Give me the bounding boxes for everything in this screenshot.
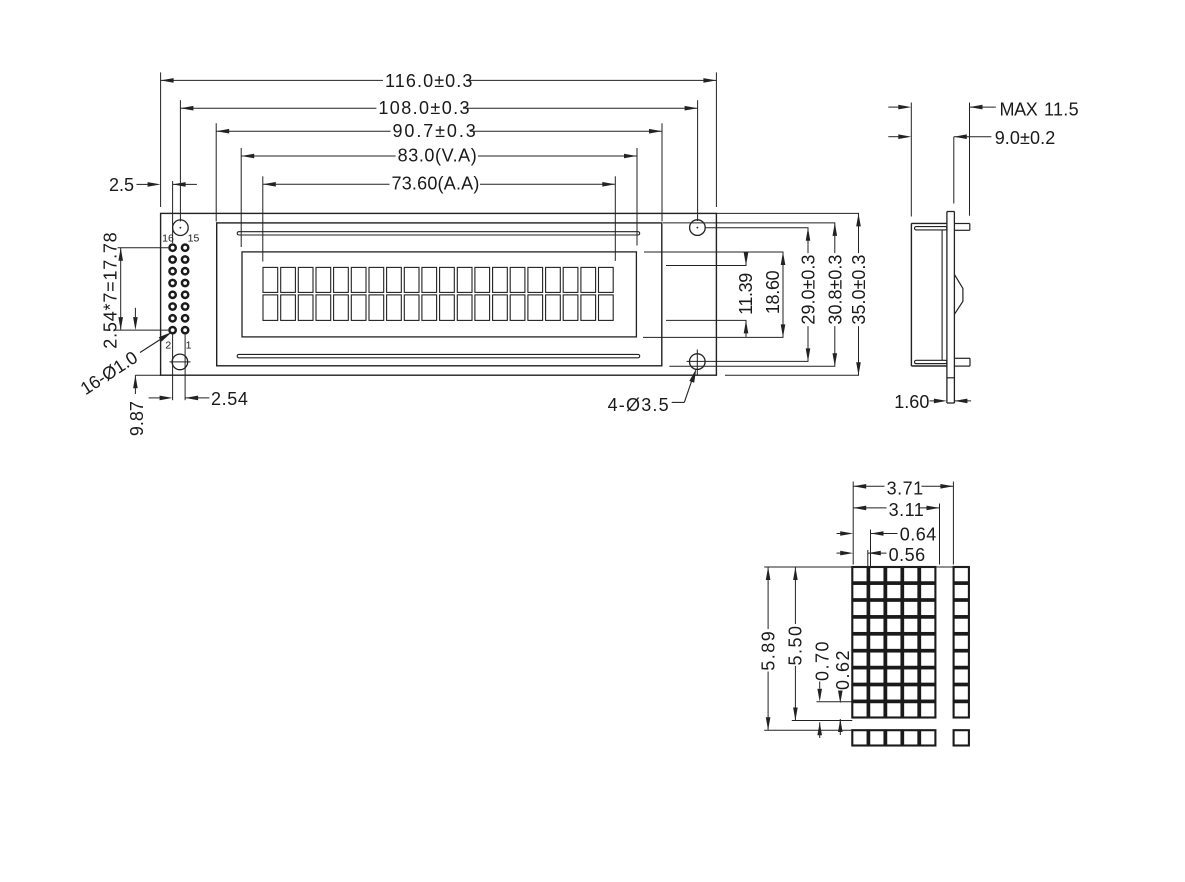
svg-text:18.60: 18.60 xyxy=(763,270,783,314)
grid 5.50 bottom extension line xyxy=(792,720,853,722)
dimension 1.60 xyxy=(929,400,934,402)
svg-text:4-Ø3.5: 4-Ø3.5 xyxy=(608,395,670,415)
side view bezel outline xyxy=(911,222,947,224)
dimension 11.39 xyxy=(666,265,747,267)
dimension 3.71 xyxy=(852,482,854,565)
dimension 35.0±0.3 xyxy=(858,213,860,253)
dimension 9.87 xyxy=(134,308,136,317)
PCB board outline (front view) xyxy=(161,213,717,375)
svg-text:11.5: 11.5 xyxy=(1044,99,1079,119)
svg-text:9.0±0.2: 9.0±0.2 xyxy=(995,128,1056,148)
mounting hole bottom-right xyxy=(690,354,706,370)
svg-text:9.87: 9.87 xyxy=(127,401,147,436)
dimension 0.62 xyxy=(839,690,841,692)
metal bezel frame outline xyxy=(217,223,662,366)
side view PCB bottom tick xyxy=(947,377,955,379)
grid 0.70 extension line xyxy=(817,701,853,703)
dot matrix main 5x9 block xyxy=(852,567,867,582)
side view bottom tab xyxy=(954,357,970,359)
dimension 116.0±0.3 xyxy=(160,72,162,207)
bezel bottom ext line xyxy=(669,365,835,367)
grid top extension line xyxy=(764,566,969,568)
svg-text:116.0±0.3: 116.0±0.3 xyxy=(385,71,474,91)
svg-text:1.60: 1.60 xyxy=(894,392,929,412)
character cell grid 20x2 (A.A) xyxy=(263,267,278,292)
dimension 2.54 pin spacing xyxy=(149,397,160,399)
svg-text:0.62: 0.62 xyxy=(833,649,853,690)
side view top tab xyxy=(954,223,969,225)
side view PCB strip xyxy=(947,211,955,213)
top bezel slot xyxy=(237,232,640,235)
svg-text:2.5: 2.5 xyxy=(109,175,134,195)
dimension 9.0±0.2 xyxy=(953,137,955,204)
svg-text:0.56: 0.56 xyxy=(889,545,926,565)
bottom-right hole crosshair vertical xyxy=(696,350,698,375)
dimension 3.11 xyxy=(939,504,941,565)
svg-text:1: 1 xyxy=(186,340,192,352)
dimension 29.0±0.3 xyxy=(807,228,809,253)
dimension 18.60 xyxy=(644,251,784,253)
svg-text:30.8±0.3: 30.8±0.3 xyxy=(825,255,845,325)
PCB top ext line xyxy=(716,212,859,214)
svg-text:90.7±0.3: 90.7±0.3 xyxy=(393,121,478,141)
svg-text:2.54*7=17.78: 2.54*7=17.78 xyxy=(101,231,121,348)
svg-text:3.71: 3.71 xyxy=(887,478,924,498)
dimension 0.56 xyxy=(867,550,869,567)
mounting hole bottom-left xyxy=(172,354,188,370)
svg-text:2: 2 xyxy=(165,340,171,352)
side view glass bottom second line xyxy=(915,363,948,365)
svg-text:3.11: 3.11 xyxy=(889,500,925,520)
dimension 90.7±0.3 xyxy=(215,123,217,221)
side view glass inner edge xyxy=(941,230,943,360)
side view glass top lip xyxy=(915,227,948,230)
dimension 2.54*7=17.78 xyxy=(118,247,169,249)
svg-text:2.54: 2.54 xyxy=(211,389,248,409)
bottom-right hole center line to 29.0 dim xyxy=(687,360,809,362)
dot matrix bottom row xyxy=(852,730,867,745)
dimension 5.89 xyxy=(767,567,769,629)
svg-text:35.0±0.3: 35.0±0.3 xyxy=(849,255,869,325)
svg-text:11.39: 11.39 xyxy=(736,273,756,315)
svg-text:29.0±0.3: 29.0±0.3 xyxy=(799,255,819,325)
dimension 0.70 xyxy=(819,682,821,689)
PCB bottom ext line xyxy=(725,374,859,376)
bottom bezel slot xyxy=(237,354,640,357)
bezel top ext line xyxy=(663,222,835,224)
dimension 83.0(V.A) xyxy=(240,148,242,247)
dot matrix right column xyxy=(954,567,969,582)
dimension 30.8±0.3 xyxy=(834,223,836,253)
pin header pads 2x8 xyxy=(168,243,177,252)
side view glass bottom lip xyxy=(915,360,948,363)
grid row10 top extension line xyxy=(764,729,852,731)
bottom-left hole crosshair xyxy=(170,361,191,363)
dimension 73.60(A.A) xyxy=(262,176,264,261)
mounting hole top-right xyxy=(690,220,706,236)
side view epoxy bump xyxy=(954,274,963,314)
dimension 108.0±0.3 xyxy=(179,100,181,221)
dimension 0.64 xyxy=(870,530,872,567)
dimension MAX 11.5 xyxy=(910,103,912,217)
mounting hole top-left xyxy=(173,220,189,236)
svg-text:MAX: MAX xyxy=(1000,99,1038,119)
svg-text:73.60(A.A): 73.60(A.A) xyxy=(392,174,480,194)
dimension 5.50 xyxy=(794,567,796,624)
svg-text:5.50: 5.50 xyxy=(785,624,805,665)
svg-text:83.0(V.A): 83.0(V.A) xyxy=(398,145,478,165)
svg-text:5.89: 5.89 xyxy=(758,630,778,671)
svg-text:15: 15 xyxy=(188,232,200,244)
svg-text:108.0±0.3: 108.0±0.3 xyxy=(378,98,471,118)
top-right hole center line to 29.0 dim xyxy=(705,227,809,229)
svg-text:0.70: 0.70 xyxy=(812,640,832,681)
svg-text:0.64: 0.64 xyxy=(900,525,937,545)
display window (V.A) outline xyxy=(242,252,636,337)
